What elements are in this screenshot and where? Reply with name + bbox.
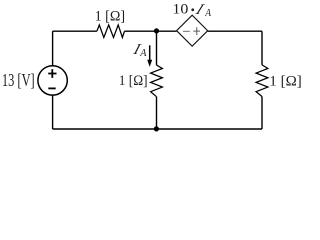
svg-text:13 [V]: 13 [V] [2,70,35,90]
svg-text:10: 10 [172,2,188,18]
wire middle vertical lower [156,97,158,129]
wire top-left horizontal [53,30,97,32]
label dependent source multiply dot [191,8,194,11]
wire top-middle horizontal [125,30,177,32]
svg-text:A: A [204,7,211,19]
resistor R2 1[Ω] middle [151,65,163,97]
svg-text:1 [Ω]: 1 [Ω] [95,9,126,25]
wire left vertical upper [52,31,54,65]
resistor R1 1[Ω] top [97,25,125,38]
wire bottom horizontal [53,128,262,130]
wire top-right horizontal [208,30,262,32]
svg-text:1 [Ω]: 1 [Ω] [269,73,302,89]
wire left vertical lower [52,96,54,130]
svg-text:1 [Ω]: 1 [Ω] [119,73,148,89]
wire right vertical upper [261,31,263,65]
node B bottom junction dot [154,126,159,131]
wire middle vertical upper [156,31,158,65]
node A top junction dot [154,28,159,33]
svg-text:A: A [139,47,146,59]
wire right vertical lower [261,97,263,130]
voltage source V1 [38,66,67,95]
dependent source U1 diamond [177,15,208,46]
current arrow IA [147,45,152,67]
resistor R3 1[Ω] right [256,65,268,97]
